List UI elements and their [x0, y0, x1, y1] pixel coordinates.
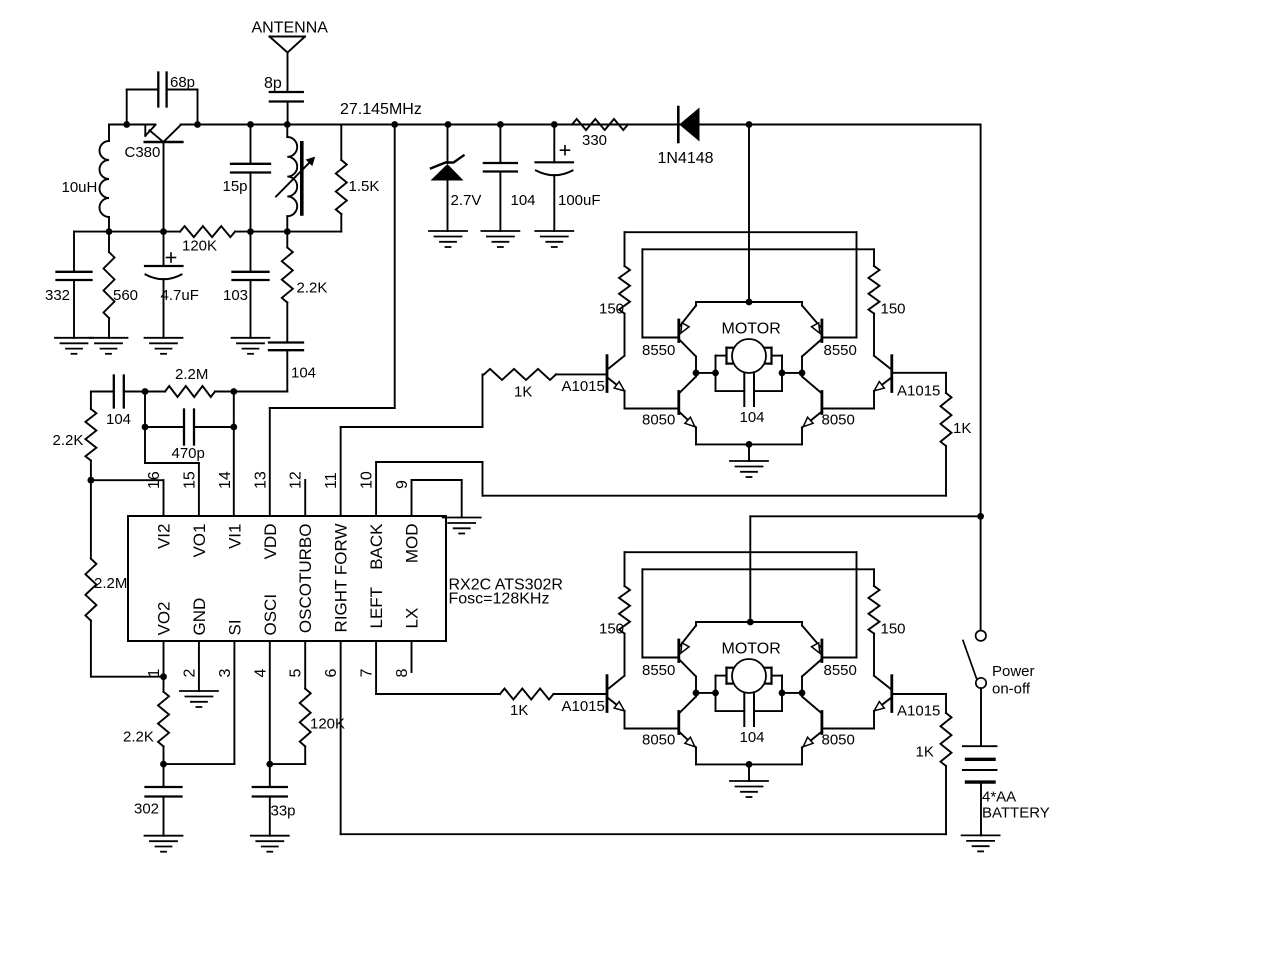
node motor left [712, 370, 719, 377]
svg-text:SI: SI [225, 619, 244, 635]
transistor 8550 right [821, 640, 824, 662]
wire motor right terminal [772, 355, 783, 357]
wire left node [696, 372, 716, 374]
node 15p on rail [247, 121, 254, 128]
variable inductor core bar [300, 143, 304, 214]
svg-text:2: 2 [181, 669, 198, 678]
svg-text:11: 11 [323, 472, 340, 489]
svg-text:104: 104 [106, 411, 131, 428]
svg-text:4*AA: 4*AA [982, 789, 1016, 806]
wire battery rail junction to lower bridge [750, 515, 980, 517]
label + 100uF polarity [561, 149, 570, 151]
node 10uH/560 [106, 228, 113, 235]
wire outer top to 8550 right base [856, 232, 858, 337]
pin 12 stub [304, 480, 306, 516]
transistor A1015 left [606, 356, 609, 392]
svg-text:4.7uF: 4.7uF [161, 287, 199, 304]
resistor 1.5K [340, 125, 342, 161]
svg-text:VO1: VO1 [190, 524, 209, 558]
wire pin16 connection [91, 479, 164, 481]
svg-text:10: 10 [359, 471, 376, 489]
svg-text:8550: 8550 [642, 662, 675, 679]
wire to bridge ground [748, 764, 750, 781]
capacitor 100uF electrolytic [553, 125, 555, 163]
pin 8 stub [411, 641, 413, 672]
zener diode 2.7V [447, 125, 449, 164]
node 104 on rail [497, 121, 504, 128]
wire 8p to VDD rail [287, 102, 289, 125]
wire node row to 332 [73, 232, 75, 272]
pin 1 stub [163, 641, 165, 677]
switch Power on-off [976, 631, 986, 641]
wire A1015 upper right base [892, 372, 946, 374]
svg-text:Power: Power [992, 663, 1035, 680]
svg-text:103: 103 [223, 287, 248, 304]
motor right bracket [770, 668, 772, 684]
wire 2.2M to pin1 [91, 676, 164, 678]
resistor 2.2K oscillator [286, 232, 288, 248]
ground 33p [251, 835, 289, 837]
node diode output / battery rail [746, 121, 753, 128]
svg-text:5: 5 [288, 669, 305, 678]
wire 104 to 2.2M node [286, 350, 288, 391]
svg-text:A1015: A1015 [562, 698, 605, 715]
svg-text:MOTOR: MOTOR [722, 321, 781, 338]
ground pin2 [180, 690, 218, 692]
wire right node [782, 692, 802, 694]
capacitor 104 regulator [499, 125, 501, 164]
svg-text:8050: 8050 [642, 412, 675, 429]
svg-text:1K: 1K [953, 420, 971, 437]
svg-text:MOTOR: MOTOR [722, 641, 781, 658]
wire 470p to pin14 vertical [233, 392, 235, 517]
svg-text:560: 560 [113, 287, 138, 304]
node 2.2K/302/pin3 [160, 761, 167, 768]
wire left collector column [695, 677, 697, 697]
resistor 1K upper right [941, 393, 952, 446]
wire bridge outer top [625, 551, 857, 553]
label + 4.7uF polarity [167, 257, 176, 259]
svg-text:A1015: A1015 [897, 383, 940, 400]
svg-text:27.145MHz: 27.145MHz [340, 101, 422, 118]
svg-text:8050: 8050 [642, 732, 675, 749]
ground battery [962, 834, 1000, 836]
svg-text:14: 14 [217, 471, 234, 489]
node left column [693, 690, 700, 697]
wire VDD tap down to pin13 [394, 125, 396, 409]
resistor 2.2M horizontal [145, 391, 165, 393]
pin 4 wire [269, 641, 271, 764]
svg-text:MOD: MOD [403, 524, 422, 564]
svg-text:330: 330 [582, 132, 607, 149]
wire 68p right to rail [167, 89, 198, 91]
resistor 150 right [873, 249, 875, 266]
svg-text:1K: 1K [916, 744, 934, 761]
svg-text:15p: 15p [223, 178, 248, 195]
ground 103 [232, 337, 270, 339]
wire motor left terminal [716, 355, 727, 357]
wire pin15 connection [145, 462, 199, 464]
capacitor 15p [250, 125, 252, 164]
wire left node [696, 692, 716, 694]
battery 4*AA [963, 745, 997, 747]
svg-text:C380: C380 [125, 144, 161, 161]
node 15p/103 [247, 228, 254, 235]
inductor 10uH [108, 125, 110, 142]
ground 104 [481, 230, 519, 232]
motor right bracket [770, 348, 772, 364]
wire battery rail right [980, 125, 982, 631]
svg-text:150: 150 [881, 301, 906, 318]
wire pin6 RIGHT to lower bridge right driver [340, 641, 342, 834]
transistor A1015 left [606, 676, 609, 712]
node 2.2M right [230, 388, 237, 395]
svg-text:LX: LX [403, 608, 422, 629]
svg-text:120K: 120K [182, 238, 217, 255]
wire pin11 RIGHT FORW to upper bridge [340, 427, 342, 516]
node 470p left [142, 424, 149, 431]
svg-text:8050: 8050 [822, 412, 855, 429]
capacitor 4.7uF electrolytic [163, 232, 165, 266]
node right column [799, 370, 806, 377]
transistor 8050 left [677, 712, 680, 734]
node zener on rail [445, 121, 452, 128]
svg-text:RIGHT FORW: RIGHT FORW [332, 524, 351, 633]
svg-text:BACK: BACK [367, 523, 386, 570]
capacitor 33p [269, 764, 271, 787]
capacitor 68p [157, 73, 159, 107]
capacitor 103 [250, 232, 252, 272]
capacitor 302 [163, 764, 165, 787]
wire to bridge ground [748, 444, 750, 461]
wire pin10 BACK to lower bridge right [375, 462, 377, 516]
svg-text:15: 15 [181, 471, 198, 489]
transistor 8050 right [821, 712, 824, 734]
pin 2 wire to ground [198, 641, 200, 691]
wire 104 left to 2.2K [91, 391, 114, 393]
svg-text:104: 104 [511, 192, 536, 209]
transistor C380 base bar [145, 141, 183, 144]
resistor 1K lower left [500, 689, 554, 700]
svg-text:BATTERY: BATTERY [982, 805, 1050, 822]
ground MOD pin9 [443, 517, 481, 519]
svg-text:9: 9 [394, 480, 411, 489]
resistor 150 right [873, 569, 875, 586]
resistor 1K upper left [484, 369, 556, 380]
svg-text:150: 150 [599, 301, 624, 318]
svg-text:10uH: 10uH [62, 179, 98, 196]
svg-text:8050: 8050 [822, 732, 855, 749]
svg-text:8550: 8550 [824, 662, 857, 679]
motor left bracket [725, 668, 727, 684]
wire VDD rail left segment [109, 124, 156, 126]
wire pin3 connection [164, 763, 235, 765]
wire motor rail [696, 301, 802, 303]
capacitor 104 across motor [716, 710, 745, 712]
svg-text:100uF: 100uF [558, 192, 601, 209]
ground 4.7uF [145, 337, 183, 339]
wire right collector column [801, 357, 803, 377]
transistor 8550 left [677, 320, 680, 342]
wire bridge inner top [642, 568, 874, 570]
node 68p-left on rail [123, 121, 130, 128]
wire 2.2M/470p vertical left [144, 392, 146, 464]
svg-text:OSCOTURBO: OSCOTURBO [296, 524, 315, 634]
wire 68p left to rail [127, 89, 159, 91]
wire bridge bottom rail [696, 763, 802, 765]
svg-text:16: 16 [146, 471, 163, 489]
svg-text:12: 12 [288, 471, 305, 489]
wire motor left terminal [716, 675, 727, 677]
node motor right [779, 370, 786, 377]
svg-text:7: 7 [359, 669, 376, 678]
capacitor 104 across motor [716, 390, 745, 392]
svg-text:A1015: A1015 [897, 703, 940, 720]
node right column [799, 690, 806, 697]
svg-text:104: 104 [740, 729, 765, 746]
transistor A1015 right [890, 356, 893, 392]
wire bridge feed [749, 516, 751, 622]
node 27.145MHz VDD tap [391, 121, 398, 128]
ground bridge [730, 460, 768, 462]
wire pin7 LEFT to lower bridge [375, 641, 377, 694]
transistor C380 collector [164, 125, 181, 142]
svg-text:VI1: VI1 [225, 524, 244, 550]
svg-text:150: 150 [881, 621, 906, 638]
svg-text:GND: GND [190, 598, 209, 636]
ground 100uF [535, 230, 573, 232]
motor left bracket [725, 348, 727, 364]
ground 302 [145, 835, 183, 837]
capacitor 104 below 2.2K [269, 341, 303, 343]
svg-text:2.2K: 2.2K [53, 432, 84, 449]
wire node row right [251, 231, 288, 233]
variable inductor coil [286, 125, 288, 138]
node 470p right [230, 424, 237, 431]
node 100uF on rail [551, 121, 558, 128]
node motor left [712, 690, 719, 697]
transistor 8050 left [677, 392, 680, 414]
svg-text:LEFT: LEFT [367, 587, 386, 629]
transistor 8550 right [821, 320, 824, 342]
node bridge feed / motor rail [746, 299, 753, 306]
node pin4/33p/120K [266, 761, 273, 768]
wire C380 base down [163, 142, 165, 232]
transistor 8550 left [677, 640, 680, 662]
svg-text:6: 6 [323, 669, 340, 678]
svg-text:13: 13 [252, 471, 269, 489]
wire battery to ground [980, 784, 982, 836]
svg-text:2.2K: 2.2K [297, 280, 328, 297]
svg-text:33p: 33p [271, 803, 296, 820]
wire 1K lower right vertical [945, 766, 947, 834]
wire 1.5K bottom to node row [287, 231, 341, 233]
wire motor right terminal [772, 675, 783, 677]
diode 1N4148 [677, 107, 680, 142]
motor M circle [732, 659, 766, 693]
node 8p/variable-inductor on rail [284, 121, 291, 128]
svg-text:3: 3 [217, 669, 234, 678]
svg-text:1.5K: 1.5K [349, 178, 380, 195]
svg-text:A1015: A1015 [562, 378, 605, 395]
node pin1 junction [160, 673, 167, 680]
svg-text:68p: 68p [170, 74, 195, 91]
wire left collector column [695, 357, 697, 377]
wire outer top to 8550 right base [856, 552, 858, 657]
wire motor rail [696, 621, 802, 623]
svg-text:8550: 8550 [824, 342, 857, 359]
node motor right [779, 690, 786, 697]
node C380 base / 4.7uF [160, 228, 167, 235]
motor M circle [732, 339, 766, 373]
resistor 1K lower right [941, 713, 952, 766]
node 2.2M left [142, 388, 149, 395]
resistor 2.2K left rail [85, 409, 96, 461]
svg-text:8p: 8p [264, 75, 282, 92]
resistor 2.2M left rail [90, 480, 92, 559]
resistor 120K oscillator [164, 231, 181, 233]
ground 332 [55, 337, 93, 339]
resistor 2.2K pin1 [163, 677, 165, 692]
ground 560 [90, 337, 128, 339]
svg-text:1N4148: 1N4148 [658, 150, 714, 167]
svg-text:2.2M: 2.2M [94, 575, 127, 592]
node left column [693, 370, 700, 377]
ground zener [429, 230, 467, 232]
svg-text:302: 302 [134, 801, 159, 818]
node 2.2K/2.2M/pin16 junction [88, 477, 95, 484]
wire bridge bottom rail [696, 443, 802, 445]
svg-text:8: 8 [394, 669, 411, 678]
node battery rail / lower bridge feed [977, 513, 984, 520]
node bridge feed / motor rail [747, 619, 754, 626]
capacitor 104 coupling [113, 376, 115, 408]
node varL/2.2K [284, 228, 291, 235]
wire bridge feed [748, 125, 750, 303]
wire node row left [74, 231, 164, 233]
wire bridge outer top [625, 231, 857, 233]
svg-text:4: 4 [252, 669, 269, 678]
ground bridge [730, 780, 768, 782]
wire switch to battery [980, 688, 982, 745]
svg-text:2.2M: 2.2M [175, 366, 208, 383]
svg-text:ANTENNA: ANTENNA [252, 20, 329, 37]
node bottom rail center [746, 441, 753, 448]
svg-text:Fosc=128KHz: Fosc=128KHz [449, 591, 550, 608]
svg-text:OSCI: OSCI [261, 594, 280, 636]
transistor C380 emitter arrow [144, 126, 146, 136]
svg-text:VO2: VO2 [155, 601, 174, 635]
node 68p-right on rail [194, 121, 201, 128]
svg-text:150: 150 [599, 621, 624, 638]
svg-text:VDD: VDD [261, 524, 280, 560]
svg-text:104: 104 [740, 409, 765, 426]
svg-text:on-off: on-off [992, 681, 1031, 698]
svg-text:2.7V: 2.7V [451, 192, 482, 209]
pin 9 wire to ground [411, 480, 413, 516]
wire VDD rail main segment [181, 124, 981, 126]
node bottom rail center [746, 761, 753, 768]
svg-text:1K: 1K [510, 702, 528, 719]
wire inner top to 8550 left base [641, 249, 643, 337]
svg-text:104: 104 [291, 365, 316, 382]
svg-text:470p: 470p [172, 445, 205, 462]
capacitor 470p [145, 426, 184, 428]
svg-text:8550: 8550 [642, 342, 675, 359]
wire inner top to 8550 left base [641, 569, 643, 657]
resistor 560 [108, 232, 110, 252]
capacitor 8p [270, 91, 303, 93]
transistor 8050 right [821, 392, 824, 414]
variable inductor arrow [276, 160, 312, 197]
capacitor 332 [57, 271, 92, 273]
transistor C380 emitter [150, 130, 164, 142]
wire bridge inner top [642, 248, 874, 250]
svg-text:1K: 1K [514, 384, 532, 401]
svg-text:2.2K: 2.2K [123, 729, 154, 746]
op-amp U1 RX2C ATS302R IC body [128, 516, 446, 641]
wire right collector column [801, 677, 803, 697]
resistor 330 [572, 119, 628, 130]
svg-text:VI2: VI2 [155, 524, 174, 550]
antenna symbol [270, 36, 306, 38]
resistor 150 left [624, 552, 626, 586]
wire antenna to C 8p [287, 53, 289, 93]
svg-text:120K: 120K [310, 716, 345, 733]
wire right node [782, 372, 802, 374]
transistor A1015 right [890, 676, 893, 712]
resistor 120K pin5 [304, 641, 306, 689]
resistor 150 left [624, 232, 626, 266]
svg-text:332: 332 [45, 287, 70, 304]
